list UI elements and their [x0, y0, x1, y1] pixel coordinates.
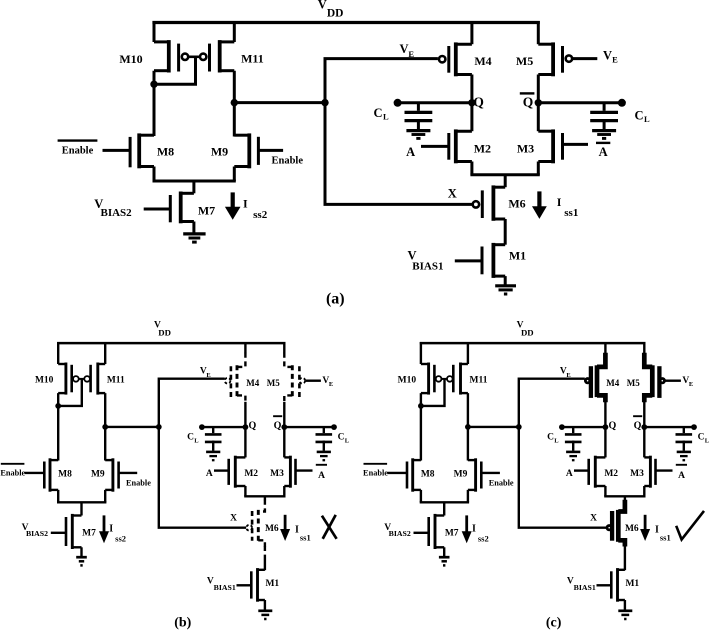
node: M11 drain junction (a)	[231, 99, 238, 106]
svg-text:X: X	[590, 513, 597, 523]
svg-text:I: I	[472, 524, 476, 535]
svg-text:Q: Q	[249, 420, 257, 431]
wire: gate tie of M10/M11 mirror (a)	[154, 57, 200, 84]
wire: node Q-bar to right capacitor (c)	[644, 424, 697, 430]
svg-text:E: E	[612, 55, 618, 65]
wire: tap down to M6 (a)	[504, 175, 507, 187]
wire: M9 source down (c)	[467, 490, 469, 502]
label CL left (b)	[187, 432, 199, 444]
wire: junction up to node VE (b)	[159, 379, 225, 427]
wire: VDD rail to M11 source (a)	[233, 21, 236, 42]
label CL left (c)	[547, 432, 559, 444]
wire: VDD rail to M10 source (a)	[153, 21, 156, 42]
wire: M10 drain down to M8 (b)	[57, 393, 59, 460]
svg-text:ss1: ss1	[300, 533, 311, 543]
node: VE/X junction (c)	[516, 424, 522, 430]
svg-text:M3: M3	[517, 142, 534, 156]
wire: M6 source down to M1 (c)	[624, 546, 626, 570]
svg-text:V: V	[318, 0, 327, 12]
wire: M8 source down (c)	[420, 490, 422, 502]
wire: M3 gate lead (c)	[656, 469, 673, 471]
svg-text:L: L	[194, 437, 199, 444]
label Iss2 (a)	[243, 197, 268, 222]
wire: M5 drain to node Q-bar (b)	[283, 402, 285, 427]
svg-text:Q: Q	[523, 94, 534, 109]
svg-text:A: A	[599, 145, 608, 159]
wire: M11 drain to VE/X junction (a)	[234, 101, 325, 104]
wire: rail to M4 source (b)	[244, 342, 246, 353]
ground under M1 (a)	[495, 286, 516, 294]
wire: M2 gate lead (c)	[574, 469, 589, 471]
wire: tap down to M6 (b)	[264, 496, 266, 500]
wire: M8 source down (b)	[57, 490, 59, 502]
input label A-bar (c)	[676, 465, 687, 481]
wire: rail to M11 source (b)	[104, 342, 106, 364]
svg-text:M8: M8	[421, 469, 435, 479]
nmos M2 (b)	[229, 456, 246, 488]
wire: M1 gate lead (a)	[455, 259, 482, 262]
node: M11 drain junction (c)	[465, 424, 471, 430]
label M6 (c)	[625, 524, 639, 534]
svg-text:M6: M6	[625, 524, 639, 534]
nmos M7 (b)	[66, 514, 82, 549]
svg-text:BIAS1: BIAS1	[214, 583, 236, 592]
svg-text:M2: M2	[604, 469, 618, 479]
svg-text:M1: M1	[509, 249, 526, 263]
capacitor CL right with ground (c)	[676, 427, 693, 460]
capacitor CL right with ground (a)	[590, 103, 618, 139]
wire: joining line M2/M3 (c)	[604, 495, 645, 497]
pmos M5 emphasized (c)	[644, 342, 664, 402]
wire: joining line M2/M3 sources (a)	[470, 173, 539, 176]
node: M11 drain junction (b)	[102, 424, 108, 430]
node: M10 drain junction (c)	[418, 403, 424, 409]
nmos M7 tail source (a)	[170, 192, 194, 224]
wire: M9 gate lead (a)	[258, 149, 283, 152]
svg-text:C: C	[338, 432, 345, 442]
svg-text:C: C	[187, 432, 194, 442]
nmos M3 (a)	[538, 129, 562, 163]
svg-text:BIAS2: BIAS2	[26, 529, 48, 538]
wire: M8 gate lead (c)	[387, 472, 407, 474]
wire: tail joining line M8/M9 (a)	[153, 180, 236, 183]
node Q (b)	[243, 420, 257, 431]
figure label (a)	[326, 291, 345, 308]
wire: M9 gate lead (c)	[481, 472, 500, 474]
svg-text:BIAS1: BIAS1	[412, 260, 443, 272]
capacitor CL right with ground (b)	[316, 427, 333, 460]
label M9 (c)	[454, 469, 468, 479]
capacitor CL left with ground (b)	[205, 427, 222, 460]
wire: M1 source to ground (b)	[264, 600, 266, 610]
wire: M6 source down to M1 drain (a)	[504, 219, 507, 245]
input label VBIAS2 (a)	[94, 197, 132, 219]
svg-text:M6: M6	[508, 197, 525, 211]
wire: rail to M11 source (c)	[467, 342, 469, 364]
ground under M1 (b)	[258, 611, 272, 619]
svg-text:C: C	[634, 109, 643, 123]
VDD power rail (b)	[57, 342, 285, 345]
node Q (c)	[603, 420, 617, 431]
input label A-bar (b)	[316, 465, 327, 481]
wire: node Q to left capacitor (c)	[559, 424, 605, 430]
svg-text:M4: M4	[606, 378, 619, 388]
wire: joining line M2/M3 (b)	[244, 495, 285, 497]
label M7 (b)	[82, 529, 96, 539]
nmos M3 (c)	[644, 456, 655, 488]
label CL right (c)	[698, 432, 709, 444]
svg-text:M10: M10	[119, 52, 142, 66]
pmos M5 emphasized (b)	[284, 342, 305, 402]
nmos M8 (a)	[130, 133, 154, 168]
svg-text:M7: M7	[198, 204, 215, 218]
wire: M11 drain to VE/X junction (b)	[105, 426, 159, 428]
wire: M3 gate lead (a)	[563, 143, 589, 146]
nmos M7 (c)	[429, 514, 445, 549]
pmos M6 with gate X (a)	[473, 185, 506, 220]
svg-text:M8: M8	[58, 469, 72, 479]
net label VE right (a)	[603, 49, 618, 65]
wire: M4 drain down to node Q (a)	[470, 75, 473, 103]
current arrow Iss1 (b)	[280, 515, 290, 541]
svg-text:DD: DD	[327, 7, 344, 19]
wire: junction down to node X / M6 gate (b)	[159, 427, 246, 528]
svg-text:Q: Q	[473, 94, 484, 109]
wire: node Q to left load capacitor (a)	[394, 99, 472, 107]
svg-text:Enable: Enable	[126, 478, 151, 487]
svg-text:ss2: ss2	[478, 534, 489, 544]
label M6 (b)	[265, 524, 279, 534]
input label Enable (c)	[489, 478, 514, 487]
label Iss1 (b)	[295, 525, 311, 543]
wire: M10 drain down to M8 (c)	[420, 393, 422, 460]
pmos M5 (a)	[538, 42, 572, 76]
label M1 (b)	[265, 579, 279, 589]
wire: M6 source down to M1 dashed (b)	[264, 546, 266, 570]
wire: M4 drain to node Q (c)	[604, 402, 606, 427]
label M5 (a)	[516, 54, 533, 68]
svg-text:Q: Q	[609, 420, 617, 431]
svg-text:M5: M5	[627, 378, 640, 388]
svg-text:M3: M3	[270, 469, 284, 479]
svg-text:Enable: Enable	[272, 156, 304, 167]
wire: node Q-bar down to M3 drain (a)	[537, 103, 540, 131]
wire: M5 gate VE stub (c)	[665, 380, 681, 382]
label M4 (a)	[474, 54, 491, 68]
label Iss1 (c)	[655, 525, 671, 543]
label M7 (c)	[445, 529, 459, 539]
net label VE right (c)	[682, 376, 693, 388]
svg-text:M5: M5	[516, 54, 533, 68]
wire: M2 gate lead (b)	[214, 469, 229, 471]
svg-text:ss1: ss1	[660, 533, 671, 543]
svg-text:M6: M6	[265, 524, 279, 534]
svg-text:DD: DD	[521, 328, 534, 338]
capacitor CL left with ground (c)	[565, 427, 582, 460]
label M11 (c)	[470, 375, 488, 385]
svg-text:M1: M1	[265, 579, 279, 589]
svg-text:BIAS2: BIAS2	[101, 207, 133, 219]
label M10 (b)	[35, 375, 54, 385]
svg-text:A: A	[206, 469, 213, 479]
svg-text:M11: M11	[470, 375, 488, 385]
nmos M9 (c)	[468, 458, 481, 491]
current arrow Iss2 (b)	[99, 515, 109, 543]
ground under M1 (c)	[618, 611, 632, 619]
label M3 (a)	[517, 142, 534, 156]
pmos M10 (b)	[58, 363, 78, 395]
nmos M9 (a)	[234, 133, 258, 168]
svg-text:ss2: ss2	[115, 534, 126, 544]
svg-text:I: I	[655, 525, 659, 536]
label M2 (a)	[474, 142, 491, 156]
ground under M7 (a)	[183, 234, 205, 242]
node label X (b)	[230, 513, 237, 523]
svg-text:E: E	[689, 381, 693, 388]
label M4 (b)	[246, 378, 259, 388]
node Q-bar (b)	[273, 416, 287, 431]
svg-text:Enable: Enable	[0, 469, 25, 478]
wire: tap down to M6 (c)	[624, 496, 626, 500]
label M7 (a)	[198, 204, 215, 218]
VDD power rail (c)	[420, 342, 646, 345]
label M3 (c)	[630, 469, 644, 479]
pmos M11 (a)	[200, 40, 234, 72]
wire: Enable-bar lead to M8 gate (a)	[103, 149, 131, 152]
svg-text:I: I	[109, 524, 113, 535]
svg-text:M9: M9	[91, 469, 105, 479]
wire: M10 drain down to M8 drain (a)	[153, 71, 156, 136]
node: VE/X junction (a)	[321, 99, 328, 106]
pmos M4 (a)	[439, 42, 472, 76]
node Q-bar (a)	[520, 93, 542, 109]
svg-text:BIAS2: BIAS2	[389, 529, 411, 538]
net label VE (c)	[560, 367, 571, 379]
wire: node Q down to M2 (c)	[604, 427, 606, 457]
wire: M2 gate lead (a)	[421, 145, 449, 148]
wire: rail to M10 source (c)	[420, 342, 422, 364]
input label A (c)	[566, 469, 573, 479]
label M4 (c)	[606, 378, 619, 388]
svg-text:C: C	[373, 106, 382, 120]
label M3 (b)	[270, 469, 284, 479]
wire: M5 drain to node Q-bar (c)	[643, 402, 645, 427]
current arrow Iss1 (a)	[532, 191, 547, 219]
svg-text:L: L	[644, 114, 650, 124]
wire: M11 drain down to M9 (c)	[467, 393, 469, 460]
pmos M6 emphasized with gate X (b)	[246, 500, 265, 547]
input label VBIAS2 (c)	[384, 523, 411, 538]
capacitor CL left with ground (a)	[405, 103, 433, 139]
label M1 (c)	[625, 579, 639, 589]
svg-text:M2: M2	[474, 142, 491, 156]
label M11 (b)	[107, 375, 125, 385]
wire: node Q to left capacitor (b)	[199, 424, 245, 430]
wire: tail joining line (b)	[57, 501, 106, 503]
label M8 (c)	[421, 469, 435, 479]
label M9 (a)	[211, 144, 228, 158]
input label Enable (a)	[272, 156, 304, 167]
label M2 (c)	[604, 469, 618, 479]
nmos M8 (b)	[44, 458, 58, 491]
check mark: valid option (c)	[676, 511, 704, 540]
label CL right (a)	[634, 109, 649, 125]
svg-text:Enable: Enable	[363, 469, 388, 478]
wire: M3 source down (b)	[283, 486, 285, 496]
wire: rail to M4 source (c)	[604, 342, 606, 353]
pmos M4 emphasized (b)	[225, 353, 246, 402]
node label X (c)	[590, 513, 597, 523]
node: M10 drain / gate tie junction (a)	[150, 81, 157, 88]
svg-text:I: I	[243, 197, 248, 211]
svg-text:M1: M1	[625, 579, 639, 589]
label Iss2 (b)	[109, 524, 126, 544]
wire: junction down to node X / M6 gate (c)	[519, 427, 606, 528]
input label Enable (b)	[126, 478, 151, 487]
input label A-bar (a)	[596, 143, 610, 159]
wire: M9 source down to tail (a)	[233, 167, 236, 182]
label M5 (b)	[267, 378, 280, 388]
svg-text:M10: M10	[398, 375, 417, 385]
svg-text:Enable: Enable	[489, 478, 514, 487]
input label VBIAS2 (b)	[22, 523, 49, 538]
svg-text:(b): (b)	[174, 615, 191, 630]
wire: M1 gate lead (b)	[237, 584, 252, 586]
pmos M11 (c)	[447, 363, 468, 395]
svg-text:M4: M4	[474, 54, 491, 68]
wire: node Q-bar down to M3 (b)	[283, 427, 285, 457]
svg-text:ss2: ss2	[253, 209, 268, 221]
wire: M3 source down (c)	[643, 486, 645, 496]
svg-text:Q: Q	[274, 420, 282, 431]
wire: M7 source to ground (a)	[192, 222, 195, 234]
label M9 (b)	[91, 469, 105, 479]
pmos M10 (c)	[421, 363, 442, 395]
cross mark: invalid option (b)	[322, 515, 337, 539]
nmos M1 (c)	[611, 568, 625, 602]
svg-text:C: C	[547, 432, 554, 442]
label M10 (c)	[398, 375, 417, 385]
label M11 (a)	[241, 52, 264, 66]
label CL right (b)	[338, 432, 350, 444]
svg-text:M11: M11	[107, 375, 125, 385]
current arrow Iss2 (c)	[462, 515, 472, 543]
wire: junction up to node VE (c)	[519, 379, 585, 427]
pmos M4 emphasized (c)	[585, 353, 605, 402]
current arrow Iss1 (c)	[640, 515, 650, 541]
nmos M2 (c)	[589, 456, 606, 488]
label M6 (a)	[508, 197, 525, 211]
input label A (a)	[406, 145, 415, 159]
svg-text:DD: DD	[158, 328, 171, 338]
pmos M11 (b)	[84, 363, 105, 395]
wire: M4 drain to node Q (b)	[244, 402, 246, 427]
wire: M7 source to ground (b)	[80, 547, 82, 556]
wire: junction up and right to node VE (a)	[325, 59, 438, 103]
node label X (a)	[448, 186, 457, 200]
wire: VDD rail to M4 source (a)	[470, 21, 473, 44]
nmos M9 (b)	[105, 458, 118, 491]
input label Enable-bar (a)	[58, 141, 98, 157]
current arrow Iss2 (a)	[225, 192, 241, 219]
svg-text:X: X	[230, 513, 237, 523]
svg-text:M10: M10	[35, 375, 54, 385]
input label VBIAS1 (b)	[207, 577, 236, 593]
label M8 (a)	[157, 144, 174, 158]
wire: M9 gate lead (b)	[119, 472, 138, 474]
wire: node Q-bar down to M3 (c)	[643, 427, 645, 457]
input label Enable-bar (b)	[0, 464, 25, 478]
nmos M3 (b)	[284, 456, 295, 488]
svg-text:A: A	[318, 471, 325, 481]
net label VE (a)	[399, 42, 414, 59]
svg-text:M11: M11	[241, 52, 264, 66]
nmos M2 (a)	[449, 129, 472, 163]
net label VE (b)	[200, 367, 211, 379]
pmos M6 emphasized with gate X (c)	[607, 500, 625, 547]
svg-text:A: A	[406, 145, 415, 159]
svg-text:Enable: Enable	[62, 145, 94, 156]
wire: M2 source down (b)	[244, 486, 246, 496]
wire: rail to M10 source (b)	[57, 342, 59, 364]
input label A (b)	[206, 469, 213, 479]
svg-text:(c): (c)	[546, 615, 562, 630]
wire: M3 source down (a)	[537, 162, 540, 175]
wire: VDD rail corner down to M5 source (a)	[537, 21, 540, 44]
wire: M1 gate lead (c)	[597, 584, 612, 586]
label Iss2 (c)	[472, 524, 489, 544]
wire: M7 gate lead (a)	[144, 208, 171, 211]
svg-text:A: A	[566, 469, 573, 479]
wire: M3 gate lead (b)	[296, 469, 313, 471]
net label VDD (c)	[517, 320, 534, 337]
node Q (a)	[468, 94, 484, 109]
wire: M1 source to ground (a)	[504, 276, 507, 285]
svg-text:M9: M9	[454, 469, 468, 479]
net label VDD (a)	[318, 0, 344, 19]
node Q-bar (c)	[633, 416, 647, 431]
svg-text:L: L	[705, 437, 709, 444]
svg-text:M5: M5	[267, 378, 280, 388]
nmos M8 (c)	[407, 458, 421, 491]
svg-text:M3: M3	[630, 469, 644, 479]
wire: node Q down to M2 (b)	[244, 427, 246, 457]
svg-text:I: I	[557, 195, 562, 209]
svg-text:C: C	[698, 432, 705, 442]
label M10 (a)	[119, 52, 142, 66]
wire: M8 gate lead (b)	[25, 472, 45, 474]
svg-text:L: L	[345, 437, 350, 444]
wire: node Q-bar to right capacitor (b)	[284, 424, 337, 430]
node: VE/X junction (b)	[156, 424, 162, 430]
wire: M5 drain down to node Q-bar (a)	[537, 75, 540, 103]
svg-text:I: I	[295, 525, 299, 536]
ground under M7 (c)	[439, 557, 450, 565]
pmos M10 (a)	[154, 40, 188, 72]
label CL left (a)	[373, 106, 388, 122]
svg-text:X: X	[448, 186, 457, 200]
nmos M1 (a)	[482, 243, 505, 278]
svg-text:(a): (a)	[326, 291, 345, 308]
input label Enable-bar (c)	[363, 464, 388, 478]
input label VBIAS1 (a)	[408, 249, 444, 273]
label M8 (b)	[58, 469, 72, 479]
ground under M7 (b)	[76, 557, 87, 565]
wire: M1 source to ground (c)	[624, 600, 626, 610]
label M5 (c)	[627, 378, 640, 388]
wire: M7 gate lead (b)	[51, 532, 66, 534]
label Iss1 (a)	[557, 195, 579, 219]
